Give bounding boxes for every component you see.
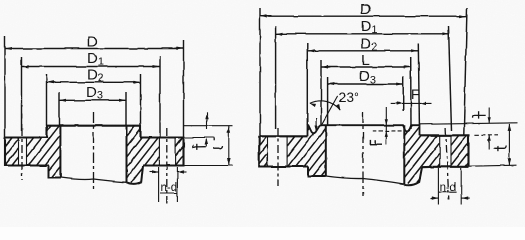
n-d extension lines (left flange)	[158, 167, 160, 202]
n-d underline (right flange)	[439, 191, 457, 193]
n-d underline (left flange)	[160, 192, 177, 194]
flange bottom extension (left flange)	[184, 165, 234, 167]
label t glyph (left flange)	[213, 146, 222, 149]
hatch left outer ring (left flange)	[5, 138, 12, 147]
dim f upper line (right flange)	[488, 108, 490, 124]
bolt hole centerline right (right flange)	[446, 128, 449, 200]
extension line D2 right (right flange)	[418, 44, 419, 125]
dim F vertical (right flange)	[385, 107, 387, 145]
dim f upper line (left flange)	[206, 112, 208, 129]
dim line L (right flange)	[321, 66, 411, 68]
flange top extension (left flange)	[184, 137, 215, 139]
extension line D3 right (right flange)	[402, 76, 404, 111]
dim line D2 (right flange)	[307, 50, 418, 52]
bolt hole centerline left (left flange)	[21, 128, 23, 180]
angle arc 23 deg	[310, 101, 341, 110]
extension line D1 right (right flange)	[449, 26, 452, 131]
hub and bore outline (left flange)	[49, 126, 144, 184]
dim line D1 (right flange)	[276, 33, 450, 35]
hatch right outer ring (left flange)	[176, 138, 183, 147]
dim line D3 (right flange)	[328, 83, 404, 85]
dim line D1 (left flange)	[22, 66, 161, 68]
break line (right flange)	[326, 176, 405, 184]
dim line D (right flange)	[260, 15, 467, 17]
extension line D2 right	[140, 74, 142, 126]
dim t line (right flange)	[508, 124, 510, 165]
hatch left outer ring (right flange)	[259, 136, 266, 145]
n-d extension lines (right flange)	[437, 168, 439, 205]
label f glyph (right flange)	[473, 115, 486, 118]
n-d arrows (left flange)	[150, 171, 159, 173]
hatch right hub section (right flange)	[405, 125, 413, 135]
extension line D3 right	[125, 92, 127, 126]
extension line D3 left (right flange)	[327, 77, 329, 125]
bolt hole edges left (left flange)	[18, 138, 20, 166]
bore and hub outline (right flange)	[308, 125, 422, 185]
bolt hole edges right (right flange)	[439, 136, 441, 167]
raised face top extension (left flange)	[184, 125, 233, 127]
extension line D2 left (right flange)	[306, 43, 308, 125]
centerline (right flange)	[362, 112, 364, 196]
extension line D right	[183, 40, 185, 138]
bolt hole centerline left (right flange)	[277, 128, 279, 186]
label F rotated (right flange)	[369, 143, 382, 145]
centerline (left flange)	[93, 112, 95, 191]
extension line D3 left	[58, 92, 60, 126]
flange bottom extension (right flange)	[469, 165, 518, 166]
hatch right hub section (left flange)	[127, 126, 135, 136]
paper scan noise veil	[0, 0, 1, 1]
groove depth arrow left (right flange)	[315, 118, 317, 132]
groove top extension (right flange)	[420, 123, 518, 125]
dim line D (left flange)	[5, 48, 184, 50]
bolt hole edges left (right flange)	[267, 136, 269, 166]
extension line D left (right flange)	[259, 8, 261, 136]
groove bottom extension (right flange)	[373, 130, 403, 132]
extension line L left (right flange)	[320, 60, 322, 125]
dim line D2 (left flange)	[47, 81, 141, 83]
dim F line (right flange)	[391, 102, 432, 104]
extension line D left	[4, 36, 6, 138]
extension line D1 right	[159, 56, 161, 138]
extension line D1 left	[21, 57, 23, 131]
extension line D right (right flange)	[464, 8, 467, 135]
extension line L right (right flange)	[410, 57, 412, 129]
label f glyph (left flange)	[193, 145, 207, 148]
angle leader line 23 deg	[321, 96, 338, 126]
extension line D2 left	[46, 74, 48, 126]
dim f lower arrow (left flange)	[206, 139, 208, 147]
flange plate outline (left flange)	[5, 126, 184, 166]
flange plate outline (right flange)	[259, 135, 468, 167]
flange top extension dashed (right flange)	[475, 134, 498, 136]
hatch left hub section (left flange)	[27, 138, 34, 147]
hatch right outer ring (right flange)	[451, 136, 459, 146]
n-d arrows (right flange)	[431, 197, 439, 199]
bolt hole centerline right (left flange)	[166, 128, 168, 203]
hatch left hub section (right flange)	[287, 137, 294, 146]
dim t line (left flange)	[228, 126, 230, 166]
label t glyph (right flange)	[494, 146, 507, 149]
groove face profile (right flange)	[308, 125, 420, 136]
dim line D3 (left flange)	[59, 99, 126, 101]
dim f lower arrow (right flange)	[488, 135, 490, 150]
extension line D1 left (right flange)	[275, 26, 277, 129]
bolt hole edges right (left flange)	[158, 138, 160, 166]
break line (left flange)	[60, 178, 126, 183]
